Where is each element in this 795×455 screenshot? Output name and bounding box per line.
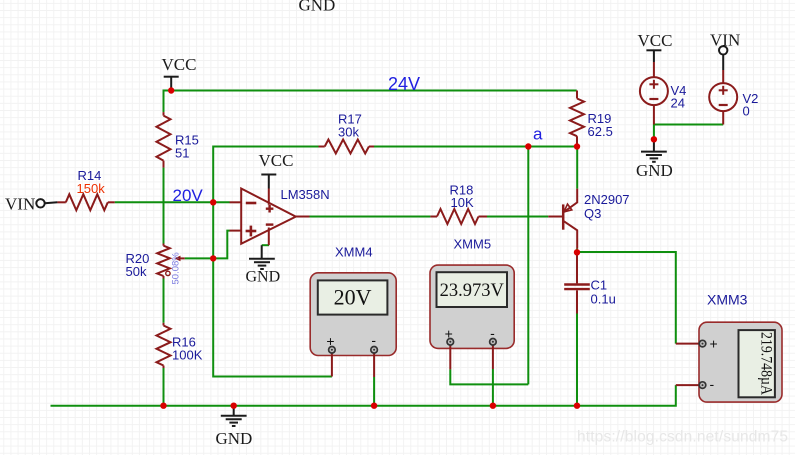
wire ground rail (51, 385, 676, 406)
svg-text:62.5: 62.5 (588, 124, 613, 139)
junction VCC rail (168, 87, 174, 93)
wire opamp power pin jog (262, 244, 269, 246)
op-amp U1 LM358N (230, 187, 330, 245)
svg-text:24: 24 (671, 96, 685, 111)
wire feedback vertical and a-node horizontal (213, 147, 318, 203)
wire collector node to XMM3 plus (577, 252, 676, 344)
svg-text:VCC: VCC (638, 31, 673, 50)
svg-text:20V: 20V (173, 186, 204, 205)
svg-text:-: - (710, 376, 715, 392)
transistor Q3 2N2907 (548, 189, 629, 249)
junction node a R19 (574, 143, 580, 149)
resistor R16 (157, 323, 203, 368)
junction rail XMM4 (371, 403, 377, 409)
junction rail XMM5 (490, 403, 496, 409)
wire divider chain R15-R20 (163, 168, 165, 244)
resistor R18 (430, 183, 487, 225)
svg-text:+: + (710, 336, 718, 352)
voltage source V2 (709, 70, 758, 125)
resistor R19 (570, 91, 613, 147)
svg-text:50.08%: 50.08% (171, 252, 182, 285)
svg-text:219.748µA: 219.748µA (758, 332, 775, 396)
input terminal VIN left (5, 195, 57, 214)
svg-text:VIN: VIN (5, 195, 35, 214)
svg-text:a: a (533, 125, 543, 144)
wire Q3 collector node (576, 249, 578, 253)
junction rail R16 (160, 403, 166, 409)
multimeter XMM5 (430, 237, 514, 370)
svg-text:50k: 50k (126, 264, 147, 279)
resistor R15 (157, 112, 199, 168)
svg-text:XMM3: XMM3 (707, 292, 748, 308)
svg-text:GND: GND (636, 161, 673, 180)
vcc symbol V4 (638, 31, 673, 62)
input terminal VIN right (710, 31, 740, 71)
wire C1 to rail (576, 314, 578, 406)
vcc symbol op-amp (259, 151, 294, 189)
svg-text:XMM4: XMM4 (335, 245, 373, 260)
wire wiper to op-amp plus input (185, 231, 230, 259)
svg-text:23.973V: 23.973V (440, 281, 505, 301)
wire node a vertical (527, 147, 529, 385)
wire op-amp output to R18 (310, 216, 431, 218)
svg-text:51: 51 (175, 146, 189, 161)
svg-text:GND: GND (246, 269, 281, 286)
svg-text:10K: 10K (451, 195, 474, 210)
multimeter XMM4 (310, 245, 396, 378)
svg-text:0: 0 (743, 104, 750, 119)
wire 20V horizontal (115, 201, 230, 203)
svg-text:GND: GND (299, 0, 336, 15)
svg-text:XMM5: XMM5 (454, 237, 492, 252)
junction rail gnd (231, 403, 237, 409)
ground V sources (636, 139, 673, 180)
voltage source V4 (640, 62, 687, 125)
svg-text:100K: 100K (172, 348, 203, 363)
ground op-amp (246, 245, 281, 285)
ground main bottom (216, 406, 253, 448)
resistor R14 (57, 168, 114, 210)
svg-text:Q3: Q3 (584, 206, 601, 221)
svg-text:30k: 30k (338, 125, 359, 140)
svg-text:LM358N: LM358N (281, 187, 330, 202)
svg-text:0.1u: 0.1u (591, 292, 616, 307)
svg-text:C1: C1 (591, 278, 608, 293)
svg-text:https://blog.csdn.net/sundm75: https://blog.csdn.net/sundm75 (577, 429, 788, 446)
junction 20V node (210, 199, 216, 205)
svg-text:2N2907: 2N2907 (584, 192, 630, 207)
svg-text:24V: 24V (388, 74, 420, 94)
wire XMM5 plus to node a (450, 369, 528, 384)
wire XMM5 minus to rail (492, 369, 494, 406)
junction node a left (525, 143, 531, 149)
resistor R17 (319, 112, 375, 154)
wire a-node right of R17 (374, 146, 577, 148)
potentiometer R20 (126, 244, 185, 285)
junction wiper node (210, 255, 216, 261)
vcc symbol left (162, 55, 197, 91)
junction rail C1 (574, 403, 580, 409)
wire V4 to gnd dot (653, 125, 655, 140)
junction V4 gnd (651, 136, 657, 142)
multimeter XMM3 (676, 292, 782, 403)
junction collector node (574, 249, 580, 255)
wire R16 to ground rail (163, 368, 165, 406)
wire R19 to Q3 emitter (576, 147, 578, 189)
wire V4 V2 bottom to ground (654, 124, 723, 126)
svg-text:-: - (371, 332, 376, 348)
svg-text:VCC: VCC (162, 55, 197, 74)
svg-text:GND: GND (216, 429, 253, 448)
wire 20V node vertical down to XMM4 plus (213, 202, 332, 376)
wire 24V rail (164, 91, 577, 113)
wire R18 to Q3 base (487, 216, 548, 218)
svg-text:20V: 20V (334, 285, 372, 310)
svg-text:150k: 150k (77, 181, 106, 196)
svg-text:VCC: VCC (259, 151, 294, 170)
wire R20-R16 (163, 279, 165, 323)
wire XMM4 minus to rail (373, 377, 375, 406)
capacitor C1 (564, 252, 616, 313)
